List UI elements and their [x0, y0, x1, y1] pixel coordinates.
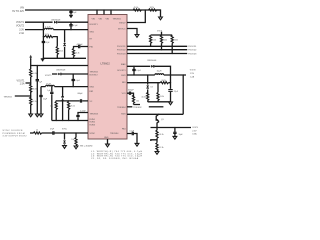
ground Q1 rail: [169, 102, 173, 105]
wire ground rail Q1: [134, 102, 171, 105]
label PGOOD1: [188, 46, 196, 48]
wire VOUT1/BOOST1 rail: [25, 21, 88, 23]
junction comp1: [56, 120, 57, 121]
svg-text:47pF: 47pF: [50, 129, 55, 131]
svg-text:VIN: VIN: [92, 19, 96, 21]
pin PGOOD1 label: [117, 46, 126, 48]
junction FB1 right: [57, 36, 58, 37]
svg-text:16.5k: 16.5k: [32, 73, 36, 75]
label C14 1500pF: [128, 90, 135, 92]
svg-text:D3: D3: [151, 87, 153, 89]
svg-text:4.7µH: 4.7µH: [45, 27, 51, 29]
wire VIN stub1: [96, 10, 98, 15]
capacitor C5 softstart 1uF: [36, 66, 43, 114]
svg-text:CMDSH-4E: CMDSH-4E: [51, 19, 61, 21]
wire FB1 divider vertical: [56, 37, 58, 59]
pin SYNC label: [90, 133, 96, 135]
capacitor C15 VOUT4 10uF: [173, 128, 183, 137]
resistor R8 track bottom 11.5k: [30, 97, 37, 105]
junction comp4: [77, 120, 78, 121]
junction FB3 out: [170, 82, 171, 83]
junction D4 top: [62, 86, 63, 87]
resistor R3 13.7k FB1: [45, 34, 53, 38]
svg-text:22µF: 22µF: [43, 99, 48, 101]
junction R10 top: [68, 100, 69, 101]
pin BOOST3 label: [117, 70, 126, 72]
wire VOUT2 node down: [40, 87, 42, 114]
ground track divider: [29, 114, 33, 117]
junction R9 top: [56, 100, 57, 101]
junction VIN cap: [70, 9, 71, 10]
label TRKSS2 tap: [4, 96, 31, 98]
pin SS4 label: [110, 133, 119, 135]
resistor R21 11.3k: [156, 140, 164, 152]
junction FB3 node: [157, 82, 158, 83]
ground EN divider: [159, 17, 163, 20]
svg-text:0.47µF: 0.47µF: [80, 111, 87, 113]
label SYNC net: [62, 129, 68, 131]
svg-text:CMDSH-4E: CMDSH-4E: [147, 60, 157, 62]
junction VOUT3 node: [170, 74, 171, 75]
svg-text:2.4A: 2.4A: [19, 32, 24, 35]
pin SW2 label: [90, 87, 95, 89]
junction VOUT1 node: [43, 29, 44, 30]
diode D3 CMDSH ch2 boost: [52, 70, 66, 76]
pin INTVCC label: [118, 28, 126, 30]
svg-text:TRK/SS4: TRK/SS4: [110, 133, 119, 135]
junction catch3: [147, 74, 148, 75]
wire EN node to pin: [127, 10, 145, 23]
svg-text:RUN1: RUN1: [90, 119, 96, 121]
svg-text:RUN3: RUN3: [90, 124, 96, 126]
wire SW3 rail: [127, 74, 186, 76]
svg-text:24.3k: 24.3k: [159, 134, 163, 136]
pin VIN3 label: [106, 19, 110, 21]
wire base rail: [127, 113, 183, 115]
resistor R7 track mid 36.5k: [30, 84, 37, 92]
junction VIN stub1: [96, 9, 97, 10]
junction SYNC r: [75, 132, 76, 133]
pin RUN1 label: [90, 119, 96, 121]
junction rail r17: [157, 101, 158, 102]
svg-text:6V TO 42V: 6V TO 42V: [12, 10, 24, 13]
junction TRKSS1 divider: [30, 65, 31, 66]
wire output node down: [170, 75, 172, 102]
wire VOUT4 rail: [151, 127, 192, 129]
svg-text:0.1µF: 0.1µF: [75, 80, 81, 82]
junction boost cap top: [70, 22, 71, 23]
capacitor C3 output 47uF: [42, 40, 51, 44]
junction TRKSS1 cap: [37, 65, 38, 66]
svg-text:PGOOD3: PGOOD3: [117, 53, 126, 55]
label PGOOD2: [188, 50, 196, 52]
svg-text:47µF: 47µF: [45, 42, 50, 44]
junction VC: [73, 46, 74, 47]
wire VOUT2 flag: [26, 82, 31, 84]
svg-text:SYNC: SYNC: [90, 133, 96, 135]
svg-text:LT8602: LT8602: [101, 62, 111, 66]
svg-text:11.5k: 11.5k: [32, 101, 36, 103]
wire ground rail ch1: [43, 57, 86, 59]
pin VIN2 label: [99, 19, 103, 21]
pin RUN3 label: [90, 124, 96, 126]
svg-text:fSW = 450kHz: fSW = 450kHz: [80, 145, 93, 147]
capacitor C14 VC3 comp: [127, 92, 134, 97]
svg-text:PGOOD1: PGOOD1: [188, 46, 196, 48]
svg-text:TRK/SS2: TRK/SS2: [133, 107, 142, 109]
junction rail c13: [170, 101, 171, 102]
wire track divider vertical: [30, 59, 32, 114]
note line 1: [91, 150, 142, 153]
wire SYNC: [42, 132, 89, 134]
diode D6 CMDSH ch3 boost: [127, 60, 157, 67]
svg-text:1.2A: 1.2A: [190, 76, 195, 79]
junction boost3 b: [133, 74, 134, 75]
svg-text:BOOST2: BOOST2: [90, 74, 99, 76]
ground C5: [35, 114, 39, 117]
resistor R6 track top 16.5k: [30, 69, 37, 77]
svg-text:SYNC SOURCE: SYNC SOURCE: [3, 130, 24, 132]
svg-text:0.1µF: 0.1µF: [73, 25, 79, 27]
flag VOUT1 arrow track divider: [29, 55, 32, 60]
inductor L3 10uH: [155, 70, 164, 75]
wire BOOST2: [61, 73, 88, 75]
pin SW1 label: [90, 32, 95, 34]
svg-text:0.1µF: 0.1µF: [136, 70, 142, 72]
wire FB4 tap: [151, 140, 157, 141]
svg-text:13.3k: 13.3k: [75, 53, 79, 55]
wire PGOOD1: [127, 45, 187, 47]
resistor R12 10k sync: [71, 133, 77, 146]
wire FB1 tap: [43, 36, 57, 38]
svg-text:VIN: VIN: [99, 19, 103, 21]
svg-text:BOOST3: BOOST3: [117, 70, 126, 72]
IC U1 LT8602 block: [88, 15, 127, 140]
svg-text:100k: 100k: [163, 39, 167, 41]
ground under C1: [69, 15, 73, 17]
junction TRKSS2 tap: [30, 95, 31, 96]
svg-text:18.2k: 18.2k: [162, 80, 166, 82]
inductor L2 15uH: [46, 83, 55, 86]
ground C15: [173, 136, 177, 139]
junction VIN stub2: [103, 9, 104, 10]
svg-text:TRK/SS2: TRK/SS2: [90, 72, 99, 74]
junction rail a: [161, 34, 162, 35]
junction FB4: [156, 139, 157, 140]
pin BOOST4 label: [121, 113, 126, 115]
svg-text:187k: 187k: [150, 7, 154, 9]
svg-text:TRK/SS2: TRK/SS2: [4, 96, 13, 98]
pin GND label: [104, 137, 109, 139]
svg-text:13.7k: 13.7k: [45, 34, 49, 36]
junction output right: [183, 74, 184, 75]
note line 4: [91, 157, 139, 160]
svg-text:1µF: 1µF: [73, 12, 77, 14]
svg-text:26.1k: 26.1k: [70, 105, 74, 107]
junction Q1 collector: [158, 114, 159, 115]
label VOUT1 flag ch2 boost: [45, 75, 53, 77]
wire TRKSS1: [31, 65, 88, 67]
label PGOOD pull rail VOUT1: [157, 30, 163, 32]
label VOUT2 flag left: [17, 79, 26, 85]
capacitor C1 1uF: [69, 10, 77, 15]
resistor R9 comp left 10k: [50, 101, 57, 121]
svg-text:EN/UV: EN/UV: [119, 22, 126, 24]
pin BOOST1 label: [90, 24, 99, 26]
label TRKSS2 flag: [127, 107, 163, 109]
junction VIN stub3: [110, 9, 111, 10]
capacitor C8 680pF: [78, 93, 84, 103]
resistor R1 49.9k EN divider: [133, 7, 141, 11]
svg-text:CMDSH-4E: CMDSH-4E: [56, 70, 66, 72]
resistor R22 VC3 10k: [132, 95, 139, 104]
wire comp bottom rail: [52, 120, 88, 122]
junction FB1 left: [43, 36, 44, 37]
note line 2: [91, 152, 142, 155]
svg-text:680pF: 680pF: [78, 93, 84, 95]
junction VOUT1 node top: [43, 22, 44, 23]
label SYNC source note: [3, 130, 28, 138]
wire INTVCC stub: [127, 29, 137, 35]
junction C10 top: [51, 86, 52, 87]
capacitor C7 output ch2 22uF: [39, 95, 48, 100]
svg-text:11.3k: 11.3k: [160, 96, 164, 98]
ground D5: [63, 146, 67, 149]
capacitor C16 47pF sync: [50, 129, 55, 135]
svg-text:VOUT1: VOUT1: [45, 75, 53, 77]
resistor R2 187k EN divider: [149, 7, 157, 11]
resistor R18 40.2k: [141, 92, 148, 101]
junction comp3: [68, 120, 69, 121]
resistor R16 FB3 top 18.2k: [160, 80, 168, 84]
label VOUT2 rating: [19, 29, 24, 35]
svg-text:SYNC: SYNC: [62, 129, 68, 131]
junction VOUT3 cap: [183, 74, 184, 75]
pin RUN2 label: [90, 122, 96, 124]
capacitor C6 boost2 0.1uF: [72, 74, 81, 87]
svg-text:100k: 100k: [152, 39, 156, 41]
svg-text:VOUT3: VOUT3: [190, 70, 196, 72]
wire SW1 rail: [25, 29, 88, 31]
wire SW1 catch diode vertical: [64, 30, 66, 59]
svg-text:TRK/SS1: TRK/SS1: [113, 19, 122, 21]
ground R12: [74, 146, 78, 149]
junction VOUT2 flag node: [30, 82, 31, 83]
diode D1 CMDSH-4E: [51, 19, 61, 23]
label PGOOD3: [188, 53, 196, 55]
resistor R5 13.3k VC: [72, 47, 79, 59]
svg-text:36.5k: 36.5k: [32, 88, 36, 90]
junction PG3: [172, 53, 173, 54]
resistor R10 26.1k comp: [68, 101, 75, 121]
svg-text:22µF: 22µF: [174, 91, 179, 93]
wire PGOOD pull rail: [151, 32, 173, 35]
svg-text:43.2k: 43.2k: [59, 51, 63, 53]
pin SW3 label: [121, 75, 126, 77]
ground R21: [155, 152, 159, 155]
ground C7: [39, 114, 43, 117]
resistor R17 FB3 bottom 11.3k: [157, 83, 164, 102]
pin FB4 label: [122, 129, 127, 131]
capacitor C10 1uF left: [47, 87, 53, 121]
pin FB2 label: [90, 91, 95, 93]
pin PGOOD2 label: [117, 50, 126, 52]
junction SW2 boost cap: [73, 86, 74, 87]
svg-text:0.1µF: 0.1µF: [130, 131, 136, 133]
pin ENUV label: [119, 22, 126, 24]
ground INTVCC: [135, 35, 139, 38]
svg-text:INTVCC: INTVCC: [118, 28, 126, 30]
junction comp2: [62, 120, 63, 121]
svg-text:1k: 1k: [36, 130, 38, 132]
svg-text:0.5A: 0.5A: [192, 133, 197, 136]
pin VC label: [90, 101, 93, 103]
svg-text:GND: GND: [104, 137, 109, 139]
resistor R20 24.3k: [156, 128, 164, 140]
wire VOUT1 vertical: [42, 22, 44, 58]
svg-text:10k: 10k: [71, 139, 74, 141]
capacitor C9 0.47uF comp: [76, 111, 88, 121]
svg-text:Q1: Q1: [161, 119, 165, 121]
svg-text:PGOOD1: PGOOD1: [117, 46, 126, 48]
label fsw note: [80, 145, 93, 147]
ground rail ch1 symbol: [41, 59, 45, 61]
resistor R13 100k PG1: [150, 35, 157, 46]
note line 3: [91, 155, 142, 158]
capacitor C11 TRKSS4 0.1uF: [130, 131, 136, 136]
svg-text:1µF: 1µF: [47, 90, 51, 92]
capacitor C12 boost3: [132, 66, 141, 75]
wire FB3: [127, 82, 171, 84]
capacitor C13 output ch3 22uF: [168, 90, 179, 94]
svg-text:VIN: VIN: [106, 19, 110, 21]
svg-text:15µH: 15µH: [46, 83, 51, 85]
svg-text:100k: 100k: [174, 39, 178, 41]
wire PGOOD3: [127, 53, 187, 55]
label VOUT1: [16, 21, 25, 27]
junction VOUT4 b: [174, 127, 175, 128]
pin VIN1 label: [92, 19, 96, 21]
pin INTVCC2 label: [122, 93, 127, 95]
wire PGOOD2: [127, 49, 187, 51]
transistor Q1: [156, 114, 164, 127]
junction SYNC d: [64, 132, 65, 133]
ground C11: [135, 143, 139, 146]
svg-text:PGOOD3: PGOOD3: [188, 53, 196, 55]
wire SW2 rail: [41, 86, 88, 88]
junction boost2 cap: [73, 73, 74, 74]
diode D2 catch: [63, 43, 66, 46]
svg-text:49.9k: 49.9k: [134, 7, 139, 9]
svg-text:10µH: 10µH: [157, 70, 162, 72]
diode D7 catch ch3: [146, 75, 152, 94]
capacitor C4 4700pF VC: [74, 44, 89, 48]
svg-text:10k: 10k: [50, 105, 53, 107]
wire D6 to VOUT3: [154, 66, 170, 75]
wire GND pin stub: [107, 139, 109, 144]
diode D5 sync clamp: [63, 133, 66, 145]
wire EN divider to ground: [157, 10, 161, 17]
label VOUT4: [192, 127, 198, 135]
svg-text:PGOOD2: PGOOD2: [188, 50, 196, 52]
junction boost3 a: [133, 66, 134, 67]
svg-text:TRK/SS3: TRK/SS3: [90, 114, 99, 116]
svg-text:RUN2: RUN2: [90, 122, 96, 124]
svg-text:C1, D2, D3: DIODES, INC. B240A: C1, D2, D3: DIODES, INC. B240A: [91, 157, 139, 160]
pin TRKSS2 label: [90, 72, 99, 74]
pin TRKSS4 label: [117, 107, 126, 109]
svg-text:2.5V: 2.5V: [192, 130, 197, 132]
junction PG2: [161, 49, 162, 50]
svg-text:PGOOD2: PGOOD2: [117, 50, 126, 52]
svg-text:1.5A: 1.5A: [20, 83, 25, 86]
ground GND pin: [106, 144, 110, 147]
wire TRKSS4 cap: [127, 134, 137, 144]
resistor R4 FB1 lower: [56, 47, 63, 55]
svg-text:POWERED FROM: POWERED FROM: [3, 133, 25, 135]
svg-text:11.3k: 11.3k: [159, 147, 163, 149]
svg-text:10k: 10k: [136, 100, 139, 102]
svg-text:40.2k: 40.2k: [141, 97, 145, 99]
junction catch diode D2: [64, 29, 65, 30]
pin FB1 label: [90, 47, 95, 49]
svg-text:BIAS: BIAS: [121, 63, 126, 66]
pin BOOST2 label: [90, 74, 99, 76]
svg-text:1500pF: 1500pF: [128, 90, 135, 92]
capacitor C2 boost 0.1uF: [69, 22, 78, 29]
inductor L1 4.7uH: [45, 27, 54, 30]
label VOUT3: [190, 70, 196, 79]
svg-text:VOUT4: VOUT4: [192, 127, 198, 129]
resistor R15 100k PG3: [171, 35, 178, 54]
svg-text:3.3V OUTPUT VOUT2: 3.3V OUTPUT VOUT2: [3, 136, 28, 138]
pin TRKSS1 top label: [113, 19, 122, 21]
svg-text:10µF: 10µF: [179, 134, 184, 136]
label VIN: [12, 7, 24, 13]
pin PGOOD3 label: [117, 53, 126, 55]
svg-text:VOUT2: VOUT2: [16, 24, 25, 27]
pin BIAS label: [121, 63, 126, 66]
resistor R11 1k SYNC: [30, 130, 42, 134]
svg-text:1.5V: 1.5V: [190, 73, 195, 75]
pin FB3 label: [122, 82, 127, 84]
resistor R14 100k PG2: [160, 35, 167, 50]
junction EN node: [145, 9, 146, 10]
wire FB2: [56, 100, 88, 102]
pin RT label: [90, 39, 93, 41]
pin TRKSS3 label: [90, 114, 99, 116]
wire VIN stub3: [110, 10, 112, 15]
wire VIN stub2: [103, 10, 105, 15]
junction PG1: [150, 46, 151, 47]
svg-text:4700pF: 4700pF: [77, 44, 84, 46]
junction SW1 boost cap: [70, 29, 71, 30]
wire output return right: [182, 75, 184, 114]
svg-text:BOOST1: BOOST1: [90, 24, 99, 26]
svg-text:1µF: 1µF: [39, 82, 43, 84]
svg-text:TRK/SS4: TRK/SS4: [117, 107, 126, 109]
diode D4 catch ch2: [61, 87, 64, 121]
wire VIN rail: [25, 9, 161, 11]
junction VOUT4 a: [156, 127, 157, 128]
